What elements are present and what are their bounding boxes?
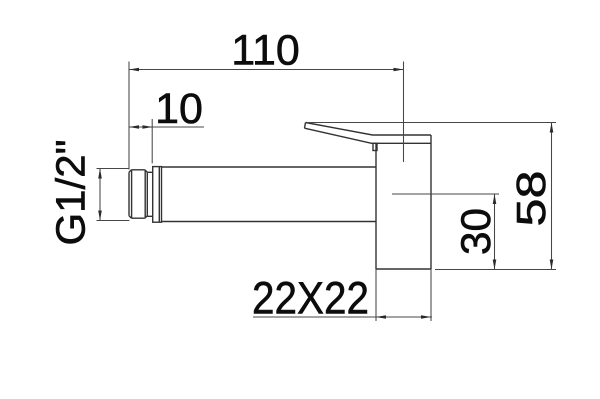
arrow dim58 top <box>550 123 554 133</box>
dim 30 dimension line <box>494 194 496 270</box>
svg-text:10: 10 <box>155 85 203 133</box>
arrow dimG12 bottom <box>98 211 102 221</box>
arrow dim22x22 right <box>421 315 431 319</box>
arrow dimG12 top <box>98 169 102 179</box>
dim 30 top extension line <box>392 193 499 195</box>
arrow dim110 left <box>129 68 139 72</box>
svg-text:G1/2": G1/2" <box>48 140 94 246</box>
spout body right edge <box>430 135 432 269</box>
dim G1/2 bottom extension tick <box>97 220 130 222</box>
arm tube 22x22 bottom edge <box>162 221 377 223</box>
spout plate tip edge <box>305 123 306 129</box>
thread undercut groove <box>147 172 152 216</box>
spout plate top edge <box>306 123 432 136</box>
arrow dim10 right <box>143 125 153 129</box>
arrow dim22x22 left <box>376 315 386 319</box>
arrow dim30 top <box>493 194 497 204</box>
svg-text:110: 110 <box>231 27 300 75</box>
spout body left edge <box>375 143 377 269</box>
dim 110 right extension line <box>403 62 405 163</box>
spout plate bottom edge <box>305 128 432 143</box>
dim 58 dimension line <box>551 123 553 270</box>
flange ring inner edge <box>158 167 160 223</box>
arrow dim10 left <box>129 125 139 129</box>
arrow dim110 right <box>394 68 404 72</box>
thread crest lines <box>132 170 146 218</box>
arm tube 22x22 top edge <box>162 166 377 168</box>
dim G1/2 top extension tick <box>97 168 130 170</box>
dim 22x22 right extension line <box>430 269 432 321</box>
dim 30 and 58 bottom extension line <box>435 269 556 271</box>
flange ring <box>153 167 162 223</box>
dim 22x22 left extension line <box>375 269 377 321</box>
dim 10 extension line <box>151 119 153 163</box>
dim 22x22 dimension line <box>253 316 432 318</box>
spout lip nub <box>373 143 377 150</box>
dim 10 dimension line <box>129 126 204 128</box>
dim 58 top extension line <box>307 122 556 124</box>
dim 110 left extension line <box>128 62 130 170</box>
arrow dim58 bottom <box>550 260 554 270</box>
spout body bottom edge <box>376 268 431 270</box>
dim 110 dimension line <box>129 69 404 71</box>
svg-text:22X22: 22X22 <box>252 273 369 324</box>
dim G1/2 dimension line <box>99 169 101 221</box>
svg-text:30: 30 <box>452 208 499 255</box>
svg-text:58: 58 <box>508 171 554 227</box>
thread G1/2 block <box>129 170 147 218</box>
arrow dim30 bottom <box>493 260 497 270</box>
